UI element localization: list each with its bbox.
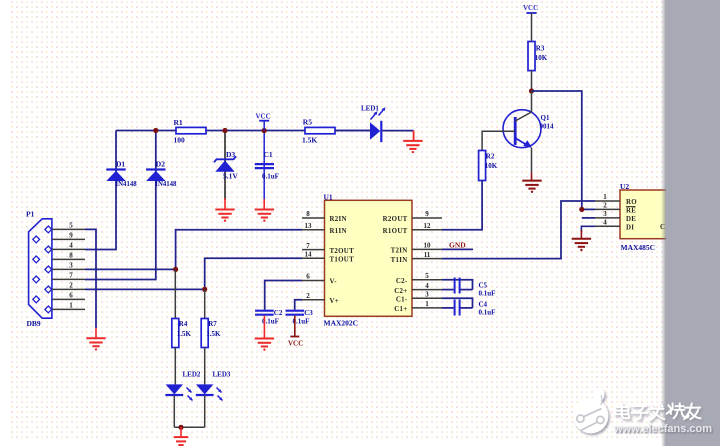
wire node A up to U1 pin13 bbox=[176, 230, 302, 270]
transistor Q1 bbox=[503, 110, 541, 148]
connector P1 body bbox=[29, 219, 52, 318]
wire DB9 pin2 to node B bbox=[85, 288, 205, 290]
wire C1 branch bbox=[263, 131, 265, 201]
wire D3 branch bbox=[224, 131, 226, 200]
wire D1 branch to DB9 pin 4 bbox=[85, 131, 116, 250]
wire U2 pin3 link bbox=[582, 217, 595, 219]
capacitor C3 bbox=[286, 310, 305, 312]
wire DB9 pin5 to ground bbox=[85, 229, 96, 328]
diode D2 bbox=[146, 168, 165, 170]
wire U1 pin4 to C5 bbox=[442, 289, 454, 291]
wire U2 pin2 link bbox=[582, 208, 595, 210]
led LED1 arrows bbox=[371, 113, 377, 120]
wire Q1 emitter bbox=[531, 148, 533, 173]
resistor R5 bbox=[305, 127, 335, 133]
wire DB9 pin3 to node A bbox=[85, 268, 176, 270]
ground LEDs bbox=[180, 427, 182, 437]
capacitor C4 bbox=[454, 300, 456, 316]
ic U2 body bbox=[620, 190, 702, 239]
wire U1 pin1 to C4 bbox=[442, 307, 454, 309]
wire node B up to U1 pin14 bbox=[205, 258, 302, 289]
wire D2 branch to DB9 pin 7 bbox=[85, 131, 156, 280]
resistor R7 bbox=[201, 319, 208, 348]
node junction D3 bbox=[222, 128, 227, 133]
node A junction bbox=[173, 267, 178, 272]
node junction VCC bbox=[262, 128, 267, 133]
connector P1 pin stubs bbox=[52, 228, 85, 230]
wire Q1 base to R2 bbox=[482, 131, 515, 150]
wire R7 to LED3 bbox=[204, 348, 206, 385]
capacitor C1 bbox=[255, 163, 274, 165]
resistor R2 bbox=[479, 151, 486, 181]
ground D3 bbox=[224, 198, 226, 210]
watermark logo bbox=[573, 388, 608, 433]
wire U1 pin5 bracket bbox=[442, 280, 473, 290]
node junction D2 bbox=[153, 128, 158, 133]
watermark title dianzifashaoyou bbox=[615, 403, 700, 420]
led LED3 bbox=[196, 384, 213, 394]
wire node A to R4 bbox=[174, 269, 176, 318]
ic U2 pin stubs bbox=[595, 200, 620, 202]
wire LED bottom rail bbox=[174, 426, 204, 428]
node U2 pin2 junction bbox=[579, 207, 584, 212]
resistor R4 bbox=[172, 319, 179, 348]
diode D1 bbox=[106, 168, 125, 170]
ground C1 bbox=[263, 199, 265, 210]
wire U1 pin11 to U2 bbox=[442, 201, 595, 259]
wire LED1 to ground bbox=[382, 130, 413, 132]
ic U1 pin stubs bbox=[302, 217, 325, 219]
ground LED1 bbox=[413, 131, 415, 141]
watermark url text bbox=[614, 423, 712, 435]
wire U1 pin6 to C2 bbox=[265, 281, 302, 310]
node B junction bbox=[202, 287, 207, 292]
wire LED3 down bbox=[204, 396, 206, 428]
ground DB9 pin5 bbox=[95, 328, 97, 338]
node Q1 collector junction bbox=[529, 88, 534, 93]
wire U2 pin4 to ground bbox=[581, 226, 595, 232]
resistor R1 bbox=[176, 127, 206, 133]
ground U2 bbox=[572, 238, 591, 240]
resistor R3 bbox=[528, 42, 535, 71]
led LED2 bbox=[166, 384, 183, 394]
wire top rail bbox=[116, 130, 370, 132]
net label GND wire bbox=[442, 248, 473, 250]
power VCC below C3 bbox=[294, 316, 296, 337]
wire C2 to ground bbox=[263, 316, 265, 339]
ground C2 bbox=[255, 338, 274, 340]
led LED2 arrows bbox=[187, 388, 192, 393]
wire R2 to U1 pin12 bbox=[442, 181, 482, 230]
led LED1 bbox=[370, 122, 380, 140]
wire R4 to LED2 bbox=[174, 348, 176, 385]
led LED3 arrows bbox=[217, 388, 222, 393]
capacitor C5 bbox=[454, 278, 456, 294]
wire R5 to LED1 bbox=[335, 130, 370, 132]
wire U1 pin2 to C3 bbox=[295, 300, 302, 310]
ic U1 body bbox=[325, 200, 413, 316]
capacitor C2 bbox=[255, 310, 274, 312]
power VCC mid bbox=[259, 120, 269, 122]
wire node B to R7 bbox=[204, 289, 206, 318]
ground Q1 bbox=[531, 172, 533, 180]
wire LED2 down bbox=[173, 396, 175, 428]
zener D3 bbox=[214, 156, 236, 162]
wire Q1 node to U2 branch bbox=[532, 91, 582, 209]
wire U1 pin3 bracket bbox=[442, 298, 473, 308]
node LED ground junction bbox=[178, 425, 183, 430]
wire R3 to Q1 node bbox=[531, 71, 533, 91]
connector P1 pin diamonds bbox=[45, 226, 52, 233]
